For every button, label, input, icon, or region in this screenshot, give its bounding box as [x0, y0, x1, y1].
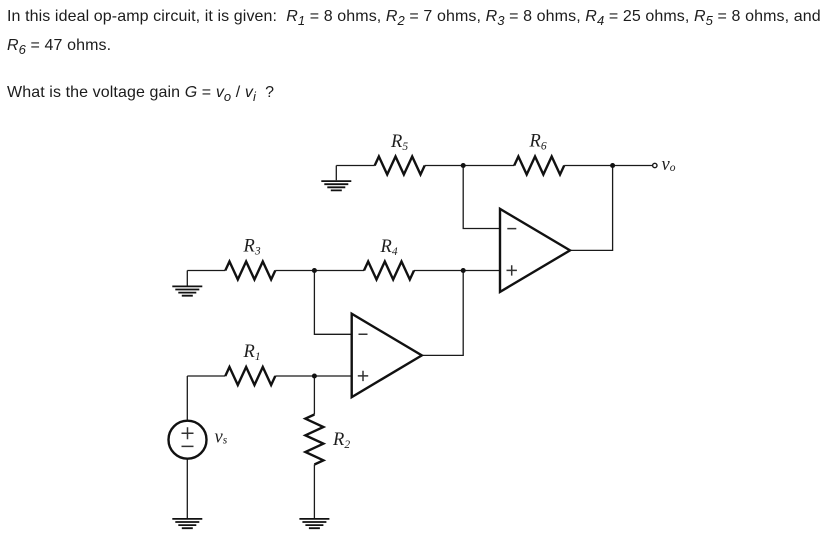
svg-text:R6: R6	[529, 132, 547, 153]
svg-text:R1: R1	[243, 342, 261, 363]
svg-text:R4: R4	[380, 237, 398, 258]
svg-text:R3: R3	[243, 237, 261, 258]
svg-text:vo: vo	[662, 155, 676, 175]
svg-text:R2: R2	[332, 430, 350, 451]
svg-text:vs: vs	[215, 428, 228, 448]
svg-text:R5: R5	[390, 132, 408, 153]
